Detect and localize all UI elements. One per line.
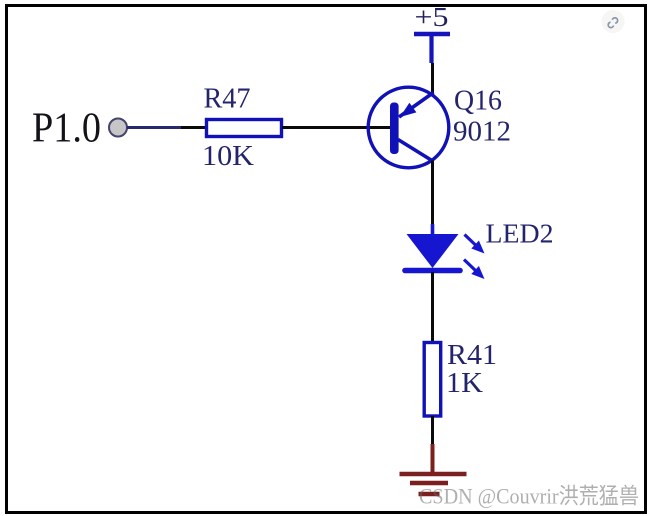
ground symbol	[400, 444, 467, 494]
svg-text:Q16: Q16	[454, 86, 502, 117]
svg-text:10K: 10K	[202, 141, 254, 172]
wire: power to Q16 emitter	[431, 63, 434, 95]
svg-text:CSDN @Couvrir洪荒猛兽: CSDN @Couvrir洪荒猛兽	[419, 484, 639, 509]
resistor R41	[424, 343, 441, 417]
power stub (blue)	[429, 34, 433, 63]
wire: pad to R47 (navy segment)	[127, 126, 181, 129]
wire: R47 to Q16 base	[282, 126, 390, 129]
LED2 anode lead (blue)	[431, 224, 435, 236]
pad/node P1.0	[109, 119, 127, 137]
share icon badge top-right	[602, 10, 625, 33]
svg-text:+5: +5	[415, 2, 449, 32]
LED LED2 symbol	[405, 234, 485, 279]
svg-text:R41: R41	[447, 340, 497, 371]
power bar symbol	[414, 32, 450, 37]
LED light arrow 2	[464, 260, 477, 272]
wire: Q16 collector to LED2	[431, 161, 434, 226]
transistor Q16 (PNP 9012)	[368, 87, 449, 168]
svg-text:P1.0: P1.0	[32, 105, 101, 152]
wire: R41 to ground	[431, 416, 434, 447]
wire: to R47 (black segment)	[181, 126, 207, 129]
resistor R47	[207, 120, 282, 137]
svg-text:LED2: LED2	[486, 218, 554, 249]
svg-text:R47: R47	[204, 84, 251, 115]
svg-text:9012: 9012	[453, 117, 511, 148]
svg-text:1K: 1K	[446, 368, 483, 399]
LED light arrow 1	[465, 235, 477, 247]
wire: LED2 to R41	[431, 272, 434, 344]
